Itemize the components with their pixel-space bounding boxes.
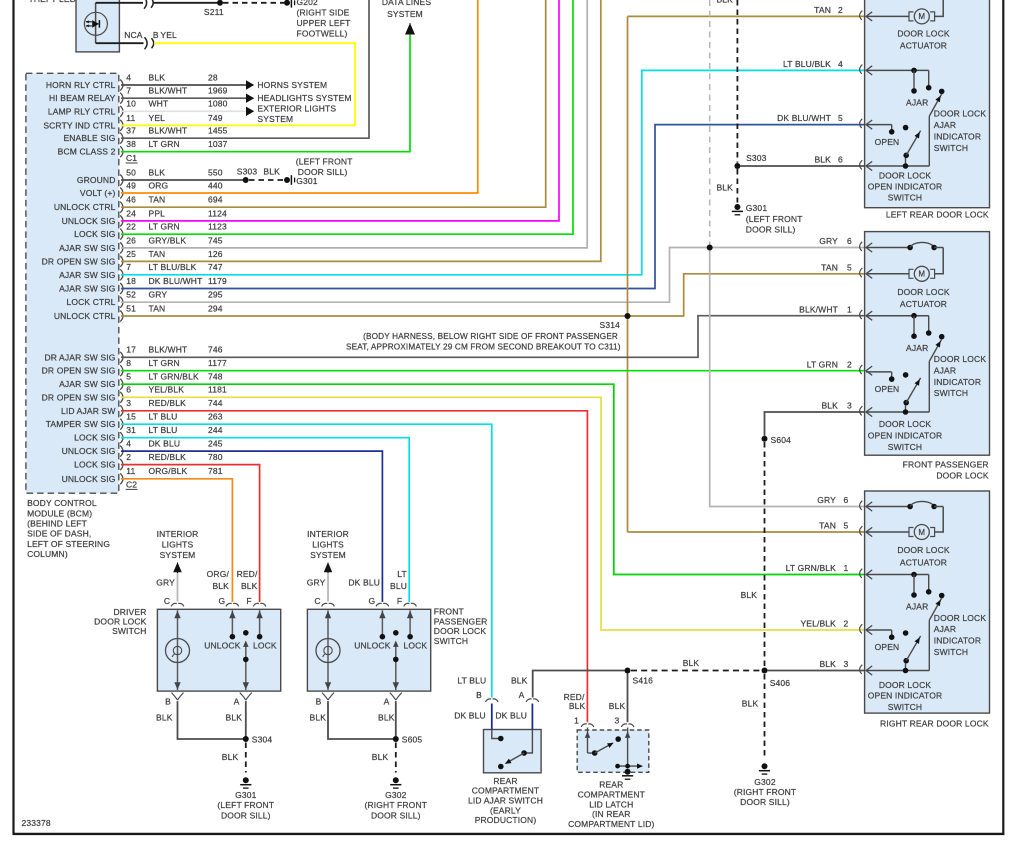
svg-text:(RIGHT SIDE: (RIGHT SIDE bbox=[297, 7, 350, 17]
svg-text:LT BLU: LT BLU bbox=[457, 676, 486, 686]
svg-text:INTERIOR: INTERIOR bbox=[157, 529, 199, 539]
svg-text:BLK/WHT: BLK/WHT bbox=[149, 86, 188, 96]
svg-text:AJAR SW SIG: AJAR SW SIG bbox=[59, 243, 115, 253]
svg-text:1080: 1080 bbox=[208, 99, 228, 109]
svg-text:AJAR SW SIG: AJAR SW SIG bbox=[59, 284, 115, 294]
svg-text:1179: 1179 bbox=[208, 276, 227, 286]
svg-text:DOOR LOCK: DOOR LOCK bbox=[879, 419, 932, 429]
svg-text:AJAR: AJAR bbox=[906, 602, 928, 612]
svg-text:GRY: GRY bbox=[156, 578, 175, 588]
svg-text:BLK: BLK bbox=[149, 167, 166, 177]
svg-text:OPEN: OPEN bbox=[875, 384, 900, 394]
svg-text:RIGHT REAR DOOR LOCK: RIGHT REAR DOOR LOCK bbox=[880, 718, 989, 728]
svg-text:DK BLU/WHT: DK BLU/WHT bbox=[777, 113, 831, 123]
svg-text:AJAR: AJAR bbox=[906, 98, 928, 108]
svg-text:A: A bbox=[234, 697, 240, 707]
svg-text:BCM CLASS 2: BCM CLASS 2 bbox=[58, 147, 116, 157]
svg-text:748: 748 bbox=[208, 372, 223, 382]
svg-text:COMPARTMENT LID): COMPARTMENT LID) bbox=[568, 819, 654, 829]
svg-text:4: 4 bbox=[126, 439, 131, 449]
svg-text:51: 51 bbox=[126, 303, 136, 313]
svg-text:BLK: BLK bbox=[310, 713, 327, 723]
svg-text:UNLOCK SIG: UNLOCK SIG bbox=[62, 474, 116, 484]
svg-text:SYSTEM: SYSTEM bbox=[310, 550, 346, 560]
svg-text:LT: LT bbox=[397, 569, 407, 579]
svg-text:15: 15 bbox=[126, 412, 136, 422]
svg-text:46: 46 bbox=[126, 195, 136, 205]
svg-text:M: M bbox=[918, 270, 925, 279]
svg-text:BLK: BLK bbox=[212, 581, 229, 591]
svg-text:SWITCH: SWITCH bbox=[888, 442, 922, 452]
svg-text:C: C bbox=[314, 596, 320, 606]
svg-text:1: 1 bbox=[847, 304, 852, 314]
svg-text:S303: S303 bbox=[237, 167, 258, 177]
svg-text:SIDE OF DASH,: SIDE OF DASH, bbox=[27, 529, 91, 539]
svg-text:UNLOCK: UNLOCK bbox=[204, 640, 241, 650]
svg-text:HI BEAM RELAY: HI BEAM RELAY bbox=[49, 93, 116, 103]
svg-text:GRY: GRY bbox=[819, 236, 838, 246]
svg-text:GRY: GRY bbox=[817, 495, 836, 505]
svg-text:G: G bbox=[219, 596, 226, 606]
svg-text:GROUND: GROUND bbox=[77, 175, 116, 185]
svg-text:18: 18 bbox=[126, 276, 136, 286]
svg-text:OPEN: OPEN bbox=[875, 642, 900, 652]
svg-text:2: 2 bbox=[844, 619, 849, 629]
svg-text:745: 745 bbox=[208, 235, 223, 245]
svg-text:BLK: BLK bbox=[241, 581, 258, 591]
svg-text:DOOR LOCK: DOOR LOCK bbox=[897, 29, 950, 39]
svg-text:G301: G301 bbox=[746, 203, 768, 213]
svg-text:BLK: BLK bbox=[716, 183, 733, 193]
svg-text:1: 1 bbox=[574, 716, 579, 726]
svg-text:AJAR: AJAR bbox=[934, 624, 956, 634]
svg-text:ENABLE SIG: ENABLE SIG bbox=[63, 133, 115, 143]
svg-text:GRY: GRY bbox=[149, 290, 168, 300]
svg-text:DR AJAR SW SIG: DR AJAR SW SIG bbox=[44, 352, 115, 362]
svg-text:BLK/WHT: BLK/WHT bbox=[799, 304, 838, 314]
svg-text:2: 2 bbox=[126, 452, 131, 462]
svg-text:BODY CONTROL: BODY CONTROL bbox=[27, 498, 97, 508]
svg-text:746: 746 bbox=[208, 345, 223, 355]
svg-text:694: 694 bbox=[208, 195, 223, 205]
svg-text:SYSTEM: SYSTEM bbox=[257, 114, 293, 124]
svg-text:BLK: BLK bbox=[609, 701, 626, 711]
svg-text:COMPARTMENT: COMPARTMENT bbox=[578, 789, 645, 799]
svg-text:31: 31 bbox=[126, 425, 136, 435]
svg-text:OPEN INDICATOR: OPEN INDICATOR bbox=[868, 182, 943, 192]
svg-text:BLK: BLK bbox=[814, 155, 831, 165]
svg-text:RED/: RED/ bbox=[237, 569, 258, 579]
svg-text:C1: C1 bbox=[126, 153, 137, 163]
svg-text:A: A bbox=[519, 690, 525, 700]
svg-text:A: A bbox=[384, 697, 390, 707]
svg-text:(BEHIND LEFT: (BEHIND LEFT bbox=[27, 519, 87, 529]
svg-text:YEL/BLK: YEL/BLK bbox=[149, 385, 185, 395]
svg-text:6: 6 bbox=[838, 155, 843, 165]
svg-text:SWITCH: SWITCH bbox=[934, 143, 968, 153]
svg-text:DOOR LOCK: DOOR LOCK bbox=[934, 613, 987, 623]
svg-text:5: 5 bbox=[844, 521, 849, 531]
svg-text:17: 17 bbox=[126, 345, 136, 355]
svg-text:1123: 1123 bbox=[208, 222, 227, 232]
svg-text:LIGHTS: LIGHTS bbox=[162, 540, 194, 550]
svg-text:INDICATOR: INDICATOR bbox=[934, 636, 981, 646]
svg-text:S604: S604 bbox=[771, 435, 792, 445]
svg-text:294: 294 bbox=[208, 303, 223, 313]
svg-text:LID AJAR SWITCH: LID AJAR SWITCH bbox=[468, 796, 543, 806]
svg-text:52: 52 bbox=[126, 290, 136, 300]
svg-text:244: 244 bbox=[208, 425, 223, 435]
svg-text:DATA LINES: DATA LINES bbox=[382, 0, 432, 7]
svg-text:BLK: BLK bbox=[741, 590, 758, 600]
svg-text:G301: G301 bbox=[235, 790, 257, 800]
svg-text:COMPARTMENT: COMPARTMENT bbox=[472, 786, 539, 796]
svg-text:28: 28 bbox=[208, 72, 218, 82]
svg-text:DR OPEN SW SIG: DR OPEN SW SIG bbox=[42, 366, 116, 376]
svg-text:BLK: BLK bbox=[372, 752, 389, 762]
svg-text:6: 6 bbox=[126, 385, 131, 395]
svg-text:HORNS SYSTEM: HORNS SYSTEM bbox=[257, 80, 327, 90]
svg-text:S303: S303 bbox=[746, 153, 767, 163]
svg-text:BLK: BLK bbox=[683, 658, 700, 668]
svg-text:UNLOCK CTRL: UNLOCK CTRL bbox=[54, 202, 116, 212]
svg-text:HEADLIGHTS SYSTEM: HEADLIGHTS SYSTEM bbox=[257, 93, 351, 103]
svg-text:MODULE (BCM): MODULE (BCM) bbox=[27, 508, 92, 518]
svg-text:DOOR SILL): DOOR SILL) bbox=[746, 225, 796, 235]
svg-text:(RIGHT FRONT: (RIGHT FRONT bbox=[365, 800, 428, 810]
svg-text:TAN: TAN bbox=[149, 195, 166, 205]
svg-text:BLK: BLK bbox=[821, 401, 838, 411]
svg-text:REAR: REAR bbox=[493, 776, 517, 786]
svg-text:OPEN INDICATOR: OPEN INDICATOR bbox=[868, 691, 943, 701]
svg-text:THEFT LED: THEFT LED bbox=[29, 0, 76, 4]
svg-text:SYSTEM: SYSTEM bbox=[387, 9, 423, 19]
svg-text:UPPER LEFT: UPPER LEFT bbox=[297, 18, 351, 28]
svg-text:GRY: GRY bbox=[307, 578, 326, 588]
svg-text:50: 50 bbox=[126, 167, 136, 177]
svg-text:BLK: BLK bbox=[742, 699, 759, 709]
svg-text:G: G bbox=[369, 596, 376, 606]
svg-text:DR OPEN SW SIG: DR OPEN SW SIG bbox=[42, 256, 116, 266]
svg-text:BLK: BLK bbox=[156, 713, 173, 723]
svg-text:LT GRN/BLK: LT GRN/BLK bbox=[149, 372, 199, 382]
svg-text:6: 6 bbox=[847, 236, 852, 246]
svg-text:295: 295 bbox=[208, 290, 223, 300]
svg-text:S416: S416 bbox=[633, 676, 654, 686]
svg-text:3: 3 bbox=[844, 659, 849, 669]
svg-text:ACTUATOR: ACTUATOR bbox=[900, 557, 947, 567]
svg-text:6: 6 bbox=[844, 495, 849, 505]
svg-text:BLK: BLK bbox=[511, 676, 528, 686]
svg-text:B: B bbox=[316, 697, 322, 707]
svg-text:NCA: NCA bbox=[124, 30, 143, 40]
svg-text:DOOR SILL): DOOR SILL) bbox=[221, 811, 271, 821]
svg-text:26: 26 bbox=[126, 235, 136, 245]
svg-text:ACTUATOR: ACTUATOR bbox=[900, 299, 947, 309]
svg-text:DR OPEN SW SIG: DR OPEN SW SIG bbox=[42, 392, 116, 402]
svg-text:LT GRN: LT GRN bbox=[149, 222, 180, 232]
svg-text:INDICATOR: INDICATOR bbox=[934, 377, 981, 387]
svg-text:126: 126 bbox=[208, 249, 223, 259]
svg-text:INTERIOR: INTERIOR bbox=[307, 529, 349, 539]
svg-text:(BODY HARNESS, BELOW RIGHT SID: (BODY HARNESS, BELOW RIGHT SIDE OF FRONT… bbox=[363, 332, 618, 341]
svg-text:11: 11 bbox=[126, 466, 135, 476]
svg-text:SWITCH: SWITCH bbox=[888, 702, 922, 712]
svg-text:TAMPER SW SIG: TAMPER SW SIG bbox=[46, 419, 116, 429]
svg-text:YEL: YEL bbox=[149, 113, 166, 123]
svg-text:S605: S605 bbox=[402, 735, 423, 745]
svg-text:BLK: BLK bbox=[226, 713, 243, 723]
svg-text:TAN: TAN bbox=[821, 262, 838, 272]
svg-text:233378: 233378 bbox=[22, 818, 51, 828]
svg-text:7: 7 bbox=[126, 86, 131, 96]
svg-text:(LEFT FRONT: (LEFT FRONT bbox=[217, 800, 274, 810]
svg-text:LT BLU/BLK: LT BLU/BLK bbox=[783, 59, 831, 69]
svg-text:DOOR LOCK: DOOR LOCK bbox=[879, 680, 932, 690]
svg-text:PASSENGER: PASSENGER bbox=[434, 616, 488, 626]
svg-text:LOCK: LOCK bbox=[253, 640, 277, 650]
svg-text:TAN: TAN bbox=[819, 521, 836, 531]
svg-text:GRY/BLK: GRY/BLK bbox=[149, 235, 187, 245]
svg-text:1: 1 bbox=[844, 563, 849, 573]
svg-text:C: C bbox=[164, 596, 170, 606]
svg-text:BLK: BLK bbox=[222, 752, 239, 762]
svg-text:3: 3 bbox=[126, 398, 131, 408]
svg-text:UNLOCK SIG: UNLOCK SIG bbox=[62, 216, 116, 226]
svg-text:550: 550 bbox=[208, 167, 223, 177]
svg-text:ORG/BLK: ORG/BLK bbox=[149, 466, 188, 476]
svg-text:UNLOCK CTRL: UNLOCK CTRL bbox=[54, 311, 116, 321]
svg-text:BLK: BLK bbox=[819, 659, 836, 669]
svg-text:LOCK CTRL: LOCK CTRL bbox=[66, 297, 115, 307]
svg-text:24: 24 bbox=[126, 208, 136, 218]
svg-text:LEFT OF STEERING: LEFT OF STEERING bbox=[27, 539, 110, 549]
svg-text:DOOR LOCK: DOOR LOCK bbox=[934, 354, 987, 364]
svg-text:49: 49 bbox=[126, 180, 136, 190]
svg-text:S304: S304 bbox=[252, 735, 273, 745]
svg-text:G202: G202 bbox=[297, 0, 319, 7]
svg-text:747: 747 bbox=[208, 262, 223, 272]
svg-text:5: 5 bbox=[847, 262, 852, 272]
svg-text:DOOR LOCK: DOOR LOCK bbox=[897, 545, 950, 555]
svg-text:37: 37 bbox=[126, 126, 136, 136]
svg-text:DK BLU: DK BLU bbox=[149, 439, 181, 449]
svg-text:C2: C2 bbox=[126, 480, 137, 490]
svg-text:OPEN INDICATOR: OPEN INDICATOR bbox=[868, 431, 943, 441]
svg-text:DK BLU: DK BLU bbox=[348, 578, 380, 588]
svg-text:YEL: YEL bbox=[160, 30, 177, 40]
svg-text:F: F bbox=[397, 596, 402, 606]
svg-text:WHT: WHT bbox=[149, 99, 169, 109]
svg-text:S314: S314 bbox=[600, 320, 621, 330]
svg-text:LT GRN/BLK: LT GRN/BLK bbox=[786, 563, 836, 573]
svg-text:SEAT, APPROXIMATELY 29 CM FROM: SEAT, APPROXIMATELY 29 CM FROM SECOND BR… bbox=[346, 343, 621, 352]
svg-text:781: 781 bbox=[208, 466, 223, 476]
svg-text:1177: 1177 bbox=[208, 358, 227, 368]
svg-text:1455: 1455 bbox=[208, 126, 228, 136]
svg-text:SWITCH: SWITCH bbox=[934, 388, 968, 398]
svg-text:DOOR LOCK: DOOR LOCK bbox=[897, 287, 950, 297]
svg-text:FOOTWELL): FOOTWELL) bbox=[297, 28, 348, 38]
svg-text:5: 5 bbox=[126, 372, 131, 382]
svg-text:780: 780 bbox=[208, 452, 223, 462]
svg-text:LOCK SIG: LOCK SIG bbox=[74, 433, 115, 443]
svg-text:3: 3 bbox=[847, 401, 852, 411]
svg-text:LID LATCH: LID LATCH bbox=[589, 799, 633, 809]
svg-text:LT GRN: LT GRN bbox=[149, 139, 180, 149]
svg-text:(LEFT FRONT: (LEFT FRONT bbox=[296, 156, 353, 166]
svg-text:FRONT: FRONT bbox=[434, 607, 464, 617]
svg-text:2: 2 bbox=[847, 359, 852, 369]
svg-text:BLK: BLK bbox=[716, 0, 733, 5]
svg-text:RED/BLK: RED/BLK bbox=[149, 398, 187, 408]
svg-text:B: B bbox=[153, 30, 159, 40]
svg-text:5: 5 bbox=[838, 113, 843, 123]
svg-text:SWITCH: SWITCH bbox=[434, 636, 468, 646]
svg-text:7: 7 bbox=[126, 262, 131, 272]
svg-text:(LEFT FRONT: (LEFT FRONT bbox=[746, 214, 803, 224]
svg-text:F: F bbox=[246, 596, 251, 606]
svg-text:OPEN: OPEN bbox=[875, 137, 900, 147]
svg-text:BLK/WHT: BLK/WHT bbox=[149, 345, 188, 355]
svg-text:LIGHTS: LIGHTS bbox=[312, 540, 344, 550]
svg-text:4: 4 bbox=[126, 72, 131, 82]
svg-text:BLK: BLK bbox=[263, 167, 280, 177]
svg-text:LAMP RLY CTRL: LAMP RLY CTRL bbox=[48, 106, 116, 116]
svg-text:INDICATOR: INDICATOR bbox=[934, 132, 981, 142]
svg-text:LT GRN: LT GRN bbox=[149, 358, 180, 368]
svg-text:AJAR SW SIG: AJAR SW SIG bbox=[59, 270, 115, 280]
svg-text:G302: G302 bbox=[754, 777, 776, 787]
svg-text:ACTUATOR: ACTUATOR bbox=[900, 41, 947, 51]
svg-text:ORG/: ORG/ bbox=[207, 569, 230, 579]
svg-text:2: 2 bbox=[838, 5, 843, 15]
svg-text:M: M bbox=[918, 12, 925, 21]
svg-text:DOOR LOCK: DOOR LOCK bbox=[879, 171, 932, 181]
svg-text:B: B bbox=[476, 690, 482, 700]
svg-text:1037: 1037 bbox=[208, 139, 228, 149]
svg-text:(EARLY: (EARLY bbox=[490, 805, 521, 815]
svg-text:LID AJAR SW: LID AJAR SW bbox=[61, 406, 116, 416]
svg-text:VOLT (+): VOLT (+) bbox=[80, 188, 116, 198]
svg-text:EXTERIOR LIGHTS: EXTERIOR LIGHTS bbox=[257, 104, 336, 114]
svg-text:DOOR LOCK: DOOR LOCK bbox=[434, 626, 487, 636]
svg-text:LT BLU/BLK: LT BLU/BLK bbox=[149, 262, 197, 272]
svg-text:TAN: TAN bbox=[814, 5, 831, 15]
svg-text:245: 245 bbox=[208, 439, 223, 449]
svg-text:SWITCH: SWITCH bbox=[112, 626, 146, 636]
svg-text:1969: 1969 bbox=[208, 86, 228, 96]
svg-text:LT BLU: LT BLU bbox=[149, 425, 178, 435]
svg-text:BLU: BLU bbox=[390, 581, 407, 591]
svg-text:TAN: TAN bbox=[149, 303, 166, 313]
svg-text:PRODUCTION): PRODUCTION) bbox=[475, 815, 537, 825]
svg-text:744: 744 bbox=[208, 398, 223, 408]
svg-text:DOOR SILL): DOOR SILL) bbox=[371, 811, 421, 821]
svg-text:AJAR: AJAR bbox=[906, 343, 928, 353]
svg-text:REAR: REAR bbox=[599, 780, 623, 790]
svg-text:TAN: TAN bbox=[149, 249, 166, 259]
svg-text:YEL/BLK: YEL/BLK bbox=[800, 619, 836, 629]
svg-text:10: 10 bbox=[126, 99, 136, 109]
svg-text:HORN RLY CTRL: HORN RLY CTRL bbox=[46, 80, 116, 90]
svg-text:COLUMN): COLUMN) bbox=[27, 549, 68, 559]
svg-text:LOCK SIG: LOCK SIG bbox=[74, 229, 115, 239]
svg-text:PPL: PPL bbox=[149, 208, 166, 218]
svg-text:LOCK: LOCK bbox=[404, 640, 428, 650]
svg-text:RED/BLK: RED/BLK bbox=[149, 452, 187, 462]
svg-text:S211: S211 bbox=[204, 7, 224, 17]
svg-text:FRONT PASSENGER: FRONT PASSENGER bbox=[903, 459, 989, 469]
svg-text:DK BLU: DK BLU bbox=[454, 711, 486, 721]
svg-text:M: M bbox=[918, 528, 925, 537]
svg-text:BLK: BLK bbox=[149, 72, 166, 82]
svg-text:BLK/WHT: BLK/WHT bbox=[149, 126, 188, 136]
svg-text:G302: G302 bbox=[385, 790, 407, 800]
svg-text:LT GRN: LT GRN bbox=[807, 359, 838, 369]
svg-text:B: B bbox=[165, 697, 171, 707]
svg-text:DOOR LOCK: DOOR LOCK bbox=[936, 470, 989, 480]
svg-text:G301: G301 bbox=[296, 176, 318, 186]
svg-text:DOOR SILL): DOOR SILL) bbox=[740, 797, 790, 807]
svg-text:4: 4 bbox=[838, 59, 843, 69]
svg-text:ORG: ORG bbox=[149, 180, 169, 190]
svg-text:DK BLU/WHT: DK BLU/WHT bbox=[149, 276, 203, 286]
svg-text:UNLOCK: UNLOCK bbox=[354, 640, 391, 650]
svg-text:BLK: BLK bbox=[378, 713, 395, 723]
svg-text:38: 38 bbox=[126, 139, 136, 149]
svg-text:(RIGHT FRONT: (RIGHT FRONT bbox=[734, 787, 797, 797]
svg-text:S406: S406 bbox=[770, 678, 791, 688]
svg-text:SCRTY IND CTRL: SCRTY IND CTRL bbox=[43, 120, 115, 130]
svg-text:(IN REAR: (IN REAR bbox=[592, 809, 631, 819]
svg-text:440: 440 bbox=[208, 180, 223, 190]
svg-text:1124: 1124 bbox=[208, 208, 227, 218]
svg-text:25: 25 bbox=[126, 249, 136, 259]
svg-text:UNLOCK SIG: UNLOCK SIG bbox=[62, 446, 116, 456]
svg-text:SWITCH: SWITCH bbox=[934, 647, 968, 657]
svg-text:SWITCH: SWITCH bbox=[888, 193, 922, 203]
svg-text:1181: 1181 bbox=[208, 385, 227, 395]
svg-text:749: 749 bbox=[208, 113, 223, 123]
svg-text:263: 263 bbox=[208, 412, 223, 422]
svg-text:SYSTEM: SYSTEM bbox=[160, 550, 196, 560]
svg-text:AJAR: AJAR bbox=[934, 120, 956, 130]
svg-text:LT BLU: LT BLU bbox=[149, 412, 178, 422]
svg-text:LEFT REAR DOOR LOCK: LEFT REAR DOOR LOCK bbox=[886, 210, 989, 220]
svg-text:BLK: BLK bbox=[569, 701, 586, 711]
svg-text:AJAR: AJAR bbox=[934, 365, 956, 375]
svg-text:3: 3 bbox=[615, 716, 620, 726]
svg-text:DOOR LOCK: DOOR LOCK bbox=[934, 109, 987, 119]
svg-text:11: 11 bbox=[126, 113, 135, 123]
svg-text:LOCK SIG: LOCK SIG bbox=[74, 460, 115, 470]
svg-text:22: 22 bbox=[126, 222, 136, 232]
svg-text:AJAR SW SIG: AJAR SW SIG bbox=[59, 379, 115, 389]
svg-text:DK BLU: DK BLU bbox=[495, 711, 527, 721]
svg-text:8: 8 bbox=[126, 358, 131, 368]
